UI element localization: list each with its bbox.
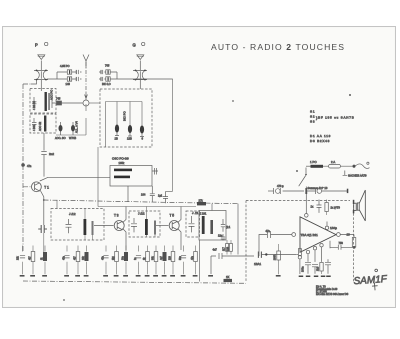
component 4k7 bottom row [31, 246, 35, 275]
wire J22 to T5 base [156, 225, 169, 227]
svg-text:12n: 12n [218, 234, 223, 237]
battery hook symbol [355, 162, 370, 168]
svg-text:1BA1: 1BA1 [254, 262, 261, 266]
svg-text:Gammes D4° 10: Gammes D4° 10 [308, 186, 328, 190]
op-amp pin 7 circle [296, 249, 301, 274]
tuning gang capacitor PO [34, 61, 48, 89]
svg-text:4 B6L: 4 B6L [33, 124, 36, 131]
wire bus to detector box [200, 204, 239, 282]
capacitor in box1 [32, 97, 37, 108]
svg-text:S 1: S 1 [310, 110, 315, 114]
antenna wire Y [83, 55, 89, 69]
op-amp pin 4 circle [313, 246, 316, 261]
amplifier dashed box right edge [353, 201, 355, 282]
capacitor under amp 2 [312, 264, 318, 274]
osc coil bar 2 [114, 176, 130, 179]
op-amp pin 3 circle [320, 244, 323, 262]
signature SAM1F [353, 268, 389, 291]
power switch lever [299, 168, 307, 214]
wire T3 collector [123, 207, 127, 223]
component 1k bottom row [43, 246, 47, 275]
svg-text:T 5: T 5 [170, 214, 175, 218]
component 47n bottom row [64, 246, 69, 275]
wire T5 emitter [178, 228, 182, 250]
trimmer capacitor 146 [47, 72, 82, 81]
bottom ground bus (dash-dot) [23, 281, 246, 283]
svg-text:2 A: 2 A [331, 160, 335, 164]
decoupling capacitor 1x [317, 200, 322, 213]
svg-text:D1 AA 119: D1 AA 119 [310, 134, 331, 138]
ground under 4n5 wire [208, 275, 213, 277]
svg-text:1µ1: 1µ1 [158, 194, 163, 198]
svg-text:705: 705 [105, 64, 110, 68]
node emitter junction [43, 199, 45, 201]
detector coil 1 [202, 216, 205, 234]
wire antenna to mixer (dash-dot) [85, 62, 87, 92]
wire detector output [211, 256, 216, 274]
trimmer ACC SO [59, 122, 63, 135]
svg-text:INC PO: INC PO [123, 111, 127, 121]
svg-text:1/34µ: 1/34µ [330, 226, 337, 230]
svg-text:146: 146 [66, 82, 71, 86]
capacitor 5.1 input [38, 225, 47, 252]
svg-text:2n2: 2n2 [49, 152, 54, 156]
scan speck [296, 170, 297, 171]
loudspeaker driver [357, 203, 359, 210]
svg-text:100n: 100n [302, 266, 305, 272]
svg-text:4.65 PO: 4.65 PO [60, 64, 70, 68]
loudspeaker horn [359, 190, 365, 221]
svg-text:S 2: S 2 [310, 115, 315, 119]
wire box2 down [43, 133, 45, 144]
node speaker top tick [353, 200, 355, 204]
transistor T5 [169, 221, 179, 231]
wire T1 collector to osc box [40, 177, 110, 181]
svg-text:GACHES AA79: GACHES AA79 [348, 174, 367, 178]
component 50u bottom row [181, 246, 186, 275]
node speaker bottom tick [353, 210, 355, 214]
resistor 100R [277, 244, 281, 274]
ground under 47n [193, 275, 198, 277]
capacitor in J12 [66, 219, 72, 233]
coil J22 primary [145, 219, 148, 235]
capacitor 2n2 [41, 144, 46, 177]
switch junction node [305, 188, 307, 194]
ground under 1n [136, 275, 141, 277]
RF transformer box 2 (dashed) [30, 114, 56, 133]
capacitor 1u1 [163, 192, 168, 204]
svg-text:EN Alim BZX3 36A inver D: EN Alim BZX3 36A inver DS [316, 292, 349, 296]
svg-text:47n: 47n [266, 229, 271, 233]
amplifier dashed box [246, 201, 350, 282]
tuning gang capacitor GO [133, 61, 147, 90]
capacitor under amp 3 [325, 259, 331, 274]
svg-text:D3 B2X48: D3 B2X48 [310, 139, 330, 143]
component 47n bottom row [103, 246, 108, 275]
ground under 100R [276, 275, 281, 277]
svg-text:10: 10 [347, 232, 351, 236]
resistor 27k on bus [197, 202, 206, 205]
ground under 4k7 [30, 275, 35, 277]
capacitor in J11 [189, 216, 195, 232]
svg-text:OSC PO-G9: OSC PO-G9 [112, 157, 129, 161]
osc coil bar 1 [114, 169, 132, 172]
component 1n bottom row [136, 246, 141, 275]
svg-text:100R: 100R [274, 254, 277, 260]
op-amp input pin circle [292, 233, 296, 237]
IF transformer box J22 (dashed) [129, 211, 160, 237]
adjustable coil 12B [128, 125, 132, 136]
node junction 47n [22, 164, 25, 167]
wire GO rail right [166, 79, 173, 192]
antenna GO connector triangle [137, 55, 144, 60]
wire output to resistor [346, 235, 354, 238]
supply bus A (dash-dot) [44, 200, 239, 204]
svg-text:(2.1: (2.1 [226, 226, 231, 229]
ground under 10n [123, 275, 128, 277]
svg-text:ALL. A V4: ALL. A V4 [75, 121, 79, 133]
svg-text:TBA 6(1 B11: TBA 6(1 B11 [301, 233, 319, 237]
svg-text:J /12: J /12 [69, 212, 76, 216]
transistor T3 [114, 221, 124, 231]
capacitor 12n [221, 234, 225, 241]
node speaker junction on rail [347, 189, 349, 193]
capacitor 750 feedback [330, 245, 354, 250]
coil J12 primary [84, 219, 87, 235]
wire T5 collector [178, 207, 182, 223]
svg-text:S 3: S 3 [310, 120, 315, 124]
component 22k bottom row [20, 246, 25, 275]
wire T1 emitter down [40, 190, 44, 226]
ground gaches symbol [343, 171, 347, 176]
wire osc box top bus [106, 102, 143, 148]
resistor 745 [57, 101, 62, 105]
wire ACC row [56, 104, 86, 135]
coil L1 windings [45, 92, 50, 111]
svg-text:ACC U2: ACC U2 [39, 121, 42, 131]
resistor 1K on bus [224, 279, 233, 282]
decoupling resistor 2x [325, 200, 328, 216]
oscillator coil box OSC PO-GO [110, 166, 152, 187]
ground under 4k7 [75, 275, 80, 277]
coil J22 secondary [154, 221, 156, 235]
trimmer W74B [71, 122, 75, 135]
component 18k bottom row [85, 246, 89, 275]
resistor 220 [226, 240, 233, 255]
svg-text:47n: 47n [27, 164, 32, 168]
svg-text:INC LO: INC LO [102, 82, 111, 86]
op-amp TBA641 triangle [300, 217, 336, 253]
node P (PO jack) [45, 42, 48, 45]
ground under 1k [145, 275, 150, 277]
RF transformer box 1 (dashed) [30, 89, 56, 114]
ground under 47n [103, 275, 108, 277]
capacitor in box2 [32, 118, 37, 129]
svg-text:2x (VT9: 2x (VT9 [331, 206, 341, 210]
wire audio up to 47n [259, 235, 267, 257]
ground under 4n7 [162, 275, 167, 277]
ground under 2k2 [114, 275, 119, 277]
scan speck [349, 94, 350, 95]
wire left rail (dash-dot) [23, 84, 30, 252]
component 4n7 bottom row [163, 246, 167, 275]
loudspeaker magnet [354, 203, 357, 210]
op-amp supply pin circle [305, 214, 309, 218]
ground row under amp [299, 275, 331, 277]
ground under 18k [84, 275, 89, 277]
svg-text:4 B1 9B: 4 B1 9B [33, 101, 36, 110]
svg-text:J /22: J /22 [138, 211, 145, 215]
svg-text:T 1: T 1 [44, 185, 49, 189]
node G (GO jack) [141, 42, 144, 45]
trimmer capacitor INC LO [99, 77, 173, 81]
detector box [199, 211, 226, 241]
scan speck [64, 300, 65, 301]
svg-text:750: 750 [339, 241, 344, 245]
coil J12 secondary [92, 221, 94, 235]
oscillator GO dashed box [100, 89, 152, 147]
diode D1 [221, 219, 225, 232]
node junction on audio line [265, 253, 267, 255]
fuse element 1PO (dark) [311, 165, 324, 168]
svg-text:220: 220 [227, 246, 230, 251]
svg-text:ACC PO: ACC PO [50, 90, 54, 100]
svg-text:1K: 1K [226, 275, 230, 279]
component 10n bottom row [124, 246, 128, 275]
wire osc box bottom drop [127, 186, 129, 202]
coil L2 winding [44, 116, 46, 132]
detector coil 2 [210, 220, 213, 234]
component 39k bottom row [154, 246, 158, 275]
component 1k bottom row [146, 246, 150, 275]
trimmer capacitor 705 GO [99, 70, 117, 79]
svg-text:J .11: J .11 [192, 211, 199, 215]
op-amp output pin circle [336, 233, 346, 237]
scan speck [233, 101, 234, 102]
svg-text:470 µ: 470 µ [277, 184, 284, 188]
capacitor in J22 [131, 218, 137, 232]
svg-text:AUTO - RADIO 2 TOUCHES: AUTO - RADIO 2 TOUCHES [211, 42, 345, 52]
component 220 bottom row [171, 246, 175, 275]
capacitor 104 on bus [150, 186, 155, 202]
IF transformer box J12 (dashed) [51, 209, 104, 241]
ground under 50u [181, 275, 186, 277]
fuse feed wire [306, 165, 311, 167]
svg-text:G: G [133, 43, 136, 48]
antenna PO connector triangle [38, 55, 45, 60]
svg-text:4n7: 4n7 [213, 248, 218, 252]
ground under 220 [170, 275, 175, 277]
svg-text:745: 745 [56, 97, 61, 101]
resistor 2k2 under amp [320, 263, 323, 275]
svg-text:1 PO: 1 PO [310, 160, 317, 164]
capacitor 4n5 [219, 253, 254, 259]
mixer stage node (circle) [83, 100, 89, 106]
component 4k7 bottom row [76, 246, 80, 275]
fuse 2A cartridge [323, 164, 354, 168]
adjustable coil 1B [115, 125, 119, 136]
wire bus to J12 [56, 200, 58, 208]
capacitor TBA1 coupling [258, 252, 296, 258]
svg-text:105k: 105k [119, 161, 125, 165]
wire feedback down [329, 241, 331, 249]
wire coil J22 leads [146, 207, 155, 238]
svg-text:W74B: W74B [69, 136, 76, 140]
svg-text:BF 185 ou SAH7B: BF 185 ou SAH7B [318, 116, 355, 120]
resistor 10 vertical [352, 238, 356, 248]
ground under 1k [42, 275, 47, 277]
agc bus [98, 147, 196, 207]
op-amp pin 5 circle [306, 250, 309, 261]
node battery junction [353, 165, 355, 167]
transistor T1 [31, 182, 41, 192]
osc core stub [152, 168, 158, 175]
wire mixer to osc box [89, 102, 100, 104]
capacitor 100n under amp [305, 262, 311, 274]
svg-text:E 191: E 191 [200, 212, 207, 216]
svg-text:ACC. SO: ACC. SO [55, 136, 66, 140]
svg-text:104: 104 [141, 193, 146, 197]
wire gang PO down to RF coil box [31, 80, 42, 91]
ground under 39k [153, 275, 158, 277]
svg-text:2k2: 2k2 [317, 266, 320, 271]
svg-text:P: P [35, 43, 38, 48]
capacitor 470u electrolytic [274, 188, 305, 194]
svg-text:T 3: T 3 [114, 214, 119, 218]
node output junction [353, 246, 355, 248]
svg-text:12B: 12B [127, 137, 132, 141]
svg-text:27k: 27k [199, 198, 204, 202]
wire T3 emitter [123, 228, 127, 250]
adjustable coil 6 [140, 126, 144, 137]
arrow into mixer [85, 92, 88, 100]
svg-text:117: 117 [223, 247, 226, 251]
wire resistor to mixer [52, 96, 83, 108]
wire coil J12 leads [85, 209, 93, 241]
component 2k2 bottom row [115, 246, 119, 275]
op-amp bootstrap pin circle [325, 222, 328, 230]
ground under 47n [64, 275, 69, 277]
capacitor 47n input [268, 231, 292, 238]
IF transformer box J11 (dashed) [186, 211, 200, 237]
capacitor electrolytic 2 [307, 188, 347, 194]
wire T1 base [23, 186, 32, 188]
component 47n bottom row [194, 246, 198, 275]
ground under 22k [20, 275, 25, 277]
svg-text:1B: 1B [115, 137, 118, 141]
wire J12 to T3 base [94, 225, 114, 227]
trimmer capacitor 4.65 PO [57, 70, 82, 74]
supply rail to amp [268, 190, 274, 192]
